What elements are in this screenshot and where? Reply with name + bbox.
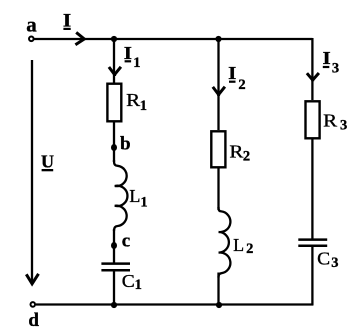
svg-text:1: 1: [140, 98, 147, 114]
svg-text:1: 1: [140, 195, 147, 211]
svg-text:2: 2: [246, 241, 253, 257]
svg-text:1: 1: [135, 277, 142, 293]
svg-text:3: 3: [331, 255, 338, 271]
svg-text:3: 3: [332, 61, 339, 77]
svg-text:a: a: [26, 13, 37, 37]
svg-text:R: R: [126, 90, 140, 110]
svg-text:U: U: [41, 152, 54, 172]
svg-text:1: 1: [133, 55, 140, 71]
svg-text:C: C: [122, 271, 135, 291]
svg-text:2: 2: [243, 148, 250, 164]
svg-text:b: b: [120, 134, 131, 155]
svg-text:L: L: [129, 186, 140, 206]
svg-text:L: L: [233, 235, 244, 255]
svg-text:C: C: [317, 248, 330, 268]
svg-text:R: R: [229, 141, 243, 161]
svg-text:R: R: [323, 111, 337, 131]
svg-text:d: d: [28, 310, 39, 331]
svg-text:3: 3: [340, 117, 347, 133]
svg-text:I: I: [323, 48, 331, 68]
svg-text:I: I: [228, 63, 236, 83]
svg-text:c: c: [122, 231, 130, 252]
svg-text:2: 2: [238, 77, 245, 93]
